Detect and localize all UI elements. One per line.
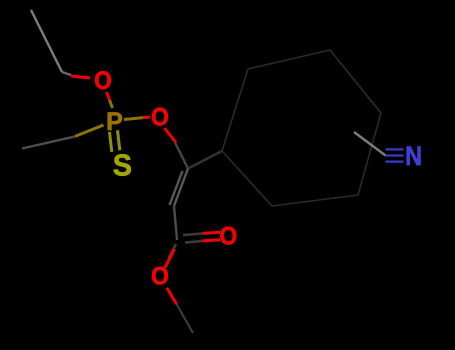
svg-text:N: N [405,141,422,171]
wire ring to nitrile C bond [354,132,386,156]
svg-text:S: S [113,148,132,183]
wire P=S double bond [110,130,120,152]
node P phosphorus [106,108,123,136]
wire C central to ring [188,151,222,169]
node S sulfur [113,148,132,183]
svg-text:O: O [151,263,169,291]
nitrile C#N triple bond [386,149,404,161]
wire O4-CH3 ester methyl [167,288,193,333]
wire O1-P bond [107,92,113,108]
node O2 bridging oxygen [151,104,169,132]
wire CH2-O1 bond [62,72,90,78]
node O1 methoxy oxygen [94,67,112,95]
node N nitrogen [405,141,422,171]
wire C carbonyl to O4 ester bond [165,244,176,268]
svg-text:P: P [106,108,123,136]
node O4 ester oxygen [151,263,169,291]
svg-text:O: O [94,67,112,95]
node O3 carbonyl oxygen [220,223,238,251]
wire P-CH3 bond left [22,125,104,149]
wire CH-C carbonyl bond [174,206,177,240]
wire vinyl C=C double bond [170,169,189,207]
wire P-O2 bond [124,117,150,120]
svg-text:O: O [151,104,169,132]
wire C=O carbonyl double bond [183,232,220,242]
benzene ring [222,50,381,206]
wire O2-C central bond [165,128,189,169]
wire ethyl CH3-CH2 diagonal top-left [31,10,62,72]
svg-text:O: O [220,223,238,251]
